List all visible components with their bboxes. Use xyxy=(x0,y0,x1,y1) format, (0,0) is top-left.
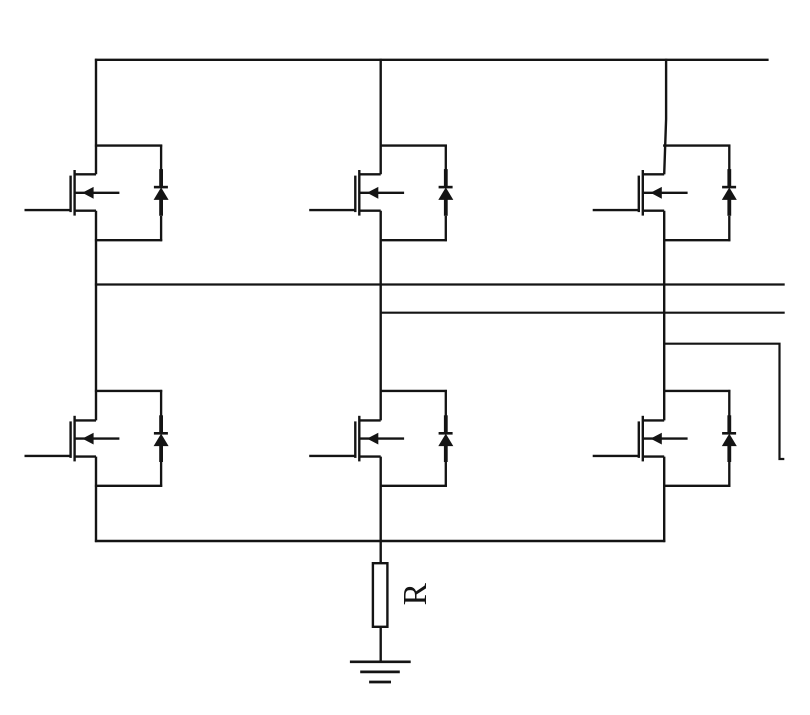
wire: cell box for Q2 xyxy=(380,146,447,241)
diode D3 (freewheeling) xyxy=(722,145,737,242)
wire: phase C upper drain leg (slight kink) xyxy=(664,59,666,175)
wire: phase A lower source leg xyxy=(95,457,97,542)
wire: cell box for Q6 xyxy=(663,391,730,486)
wire: phase A output rail xyxy=(95,283,785,285)
diode D2 (freewheeling) xyxy=(438,145,453,242)
transistor Q4 (MOSFET) xyxy=(25,416,120,462)
wire: cell box for Q5 xyxy=(380,391,447,486)
wire: cell box for Q4 xyxy=(95,391,162,486)
wire: phase B output rail xyxy=(380,312,785,314)
wire: phase C lower source leg xyxy=(663,457,665,542)
transistor Q1 (MOSFET) xyxy=(25,170,120,216)
wire: cell box for Q3 xyxy=(663,146,730,241)
wire: phase A mid leg (upper source to lower drain) xyxy=(95,211,97,421)
wire: phase A upper drain leg xyxy=(95,59,97,175)
svg-text:R: R xyxy=(397,582,434,605)
diode D4 (freewheeling) xyxy=(154,390,169,487)
transistor Q2 (MOSFET) xyxy=(309,170,404,216)
wire: bottom rail to resistor xyxy=(380,541,382,564)
wire: resistor to ground xyxy=(380,627,382,662)
diode D1 (freewheeling) xyxy=(154,145,169,242)
transistor Q6 (MOSFET) xyxy=(593,416,688,462)
wire: phase C mid leg xyxy=(663,211,665,421)
wire: phase B mid leg xyxy=(380,211,382,421)
wire: cell box for Q1 xyxy=(95,146,162,241)
wire: phase B lower source leg xyxy=(380,457,382,542)
wire: phase B upper drain leg xyxy=(380,59,382,175)
diode D5 (freewheeling) xyxy=(438,390,453,487)
resistor R xyxy=(373,563,388,627)
diode D6 (freewheeling) xyxy=(722,390,737,487)
wire: phase C output (right, jog down) xyxy=(663,344,784,459)
wire: negative/common bus (bottom rail) xyxy=(95,540,665,542)
ground xyxy=(350,662,411,682)
transistor Q5 (MOSFET) xyxy=(309,416,404,462)
transistor Q3 (MOSFET) xyxy=(593,170,688,216)
wire: positive DC bus (top rail) xyxy=(95,59,769,61)
